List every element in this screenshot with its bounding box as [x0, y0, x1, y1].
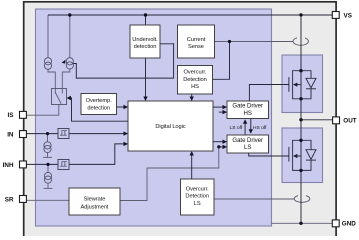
svg-text:Undervolt.: Undervolt. [132, 37, 158, 43]
svg-text:LS off: LS off [230, 125, 243, 131]
svg-text:Detection: Detection [185, 194, 209, 200]
svg-text:SR: SR [5, 196, 14, 203]
svg-text:VS: VS [344, 12, 352, 19]
svg-text:detection: detection [134, 44, 157, 50]
svg-text:Slewrate: Slewrate [84, 197, 106, 203]
svg-text:HS: HS [191, 84, 199, 90]
svg-text:IN: IN [7, 131, 14, 138]
svg-text:GND: GND [342, 221, 356, 228]
svg-text:Current: Current [187, 37, 206, 43]
svg-text:Overcurr.: Overcurr. [186, 186, 209, 192]
svg-text:Gate Driver: Gate Driver [232, 137, 263, 144]
svg-text:detection: detection [87, 105, 110, 111]
svg-text:Adjustment: Adjustment [81, 205, 109, 211]
svg-text:Overcurr.: Overcurr. [184, 70, 207, 76]
svg-text:Detection: Detection [183, 77, 207, 83]
svg-text:OUT: OUT [343, 117, 356, 124]
svg-text:Digital Logic: Digital Logic [155, 124, 186, 130]
svg-text:INH: INH [3, 162, 14, 169]
svg-text:LS: LS [244, 144, 251, 151]
svg-text:IS: IS [8, 112, 14, 119]
svg-text:HS off: HS off [253, 125, 267, 131]
svg-text:LS: LS [194, 201, 201, 207]
svg-text:Sense: Sense [188, 44, 204, 50]
svg-text:HS: HS [244, 110, 252, 117]
svg-text:Overtemp.: Overtemp. [86, 98, 113, 104]
svg-text:Gate Driver: Gate Driver [232, 103, 263, 110]
